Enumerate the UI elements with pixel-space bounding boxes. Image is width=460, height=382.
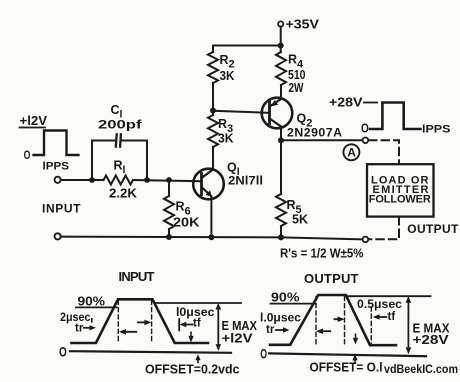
svg-text:OFFSET=0.2vdc: OFFSET=0.2vdc (145, 363, 240, 377)
svg-text:OFFSET= O.l: OFFSET= O.l (310, 361, 383, 375)
svg-text:tf: tf (193, 317, 201, 329)
arrow EMAX vertical output (406, 296, 412, 354)
svg-text:INPUT: INPUT (42, 201, 81, 215)
wire 90% level line input (76, 306, 117, 308)
input trapezoid waveform (72, 299, 209, 343)
wire dashed from load box bottom (369, 217, 399, 239)
svg-text:3K: 3K (218, 132, 234, 146)
svg-text:lPPS: lPPS (422, 123, 451, 135)
capacitor C1 (92, 134, 147, 180)
input terminal (55, 177, 61, 183)
input pulse waveform +12V (20, 128, 79, 156)
node Q2 collector junction (278, 137, 284, 143)
ground-return terminal bottom left (55, 233, 61, 239)
svg-text:90%: 90% (271, 289, 300, 304)
svg-text:2W: 2W (289, 81, 304, 95)
dashed riser right output (344, 297, 346, 345)
resistor R2 (208, 46, 218, 111)
transistor Q1 (193, 169, 224, 238)
svg-text:l.0μsec: l.0μsec (260, 310, 301, 324)
svg-text:O: O (24, 148, 31, 162)
svg-text:+35V: +35V (286, 16, 320, 31)
wire dashed to load box top (369, 140, 399, 164)
tick after 2usec (91, 318, 93, 323)
svg-text:+l2V: +l2V (20, 114, 48, 128)
svg-text:3K: 3K (220, 69, 235, 83)
svg-text:2Nl7ll: 2Nl7ll (228, 175, 263, 187)
svg-text:O: O (260, 346, 267, 361)
arrow offset up input (195, 354, 200, 362)
dashed riser fall-bottom output (370, 307, 372, 345)
svg-text:20K: 20K (173, 216, 200, 230)
node rail R6 (166, 234, 172, 240)
wire top reference line to EMAX output (347, 295, 431, 297)
resistor R3 (208, 111, 218, 169)
transistor Q2 (262, 98, 293, 141)
svg-text:510: 510 (288, 68, 306, 82)
svg-text:vdBeekIC.com: vdBeekIC.com (384, 364, 458, 376)
arrow top-width right input (138, 320, 151, 326)
arrow EMAX vertical input (216, 303, 222, 351)
arrow tf output (373, 314, 386, 319)
svg-text:90%: 90% (78, 294, 106, 309)
arrow top-width left input (119, 329, 136, 335)
dashed riser right input (151, 301, 153, 344)
arrow tf input with tick (179, 319, 192, 331)
node R2/R3 junction (210, 108, 216, 114)
dashed riser left input (117, 301, 119, 344)
wire zero line input (70, 351, 231, 353)
arrow offset up output (352, 354, 357, 362)
wire +35V down to top rail (280, 27, 282, 46)
svg-text:INPUT: INPUT (119, 269, 155, 284)
arrow tr output (276, 327, 290, 332)
arrow top-width right output (335, 316, 345, 322)
svg-text:lPPS: lPPS (43, 160, 70, 172)
wire bottom rail (61, 237, 362, 240)
+35V terminal (278, 21, 283, 26)
dashed riser left output (315, 297, 317, 345)
wire top reference line to EMAX input (155, 302, 242, 304)
svg-text:OUTPUT: OUTPUT (304, 271, 359, 286)
svg-text:+l2V: +l2V (222, 330, 253, 345)
svg-text:5K: 5K (292, 213, 308, 227)
output bottom terminal (363, 237, 369, 243)
wire collector to output terminal (281, 139, 362, 141)
node A circle (343, 144, 359, 160)
svg-text:tf: tf (388, 311, 396, 323)
node rail R5 (278, 234, 284, 240)
node R6 top junction (166, 177, 172, 183)
resistor R1 (104, 176, 134, 185)
output top terminal (363, 138, 369, 144)
svg-text:2N2907A: 2N2907A (287, 125, 342, 139)
wire 90% level line output (271, 303, 316, 305)
wire zero line output (269, 353, 426, 356)
node C1 left junction (89, 177, 95, 183)
wire R1 to Q1 base (133, 180, 202, 181)
arrow offset down input (188, 332, 193, 342)
svg-text:A: A (347, 146, 356, 160)
svg-text:O: O (361, 121, 369, 136)
svg-text:+28V: +28V (413, 332, 449, 347)
arrow top-width left output (316, 328, 330, 334)
svg-text:FOLLOWER: FOLLOWER (369, 194, 431, 206)
svg-text:tr: tr (266, 324, 275, 336)
svg-text:R's = 1/2 W±5%: R's = 1/2 W±5% (280, 247, 364, 261)
arrow offset down output (353, 334, 358, 344)
svg-text:200pf: 200pf (98, 118, 143, 132)
node C1 right junction (144, 177, 150, 183)
arrow tr input (84, 325, 96, 330)
svg-text:O: O (59, 344, 67, 359)
wire top rail (213, 45, 281, 47)
svg-text:tr: tr (75, 322, 84, 334)
wire input to R1 (61, 179, 104, 181)
load box (367, 164, 434, 216)
svg-text:OUTPUT: OUTPUT (407, 222, 459, 236)
wire to Q2 base (213, 111, 269, 113)
node top-rail junction (278, 43, 284, 49)
resistor R4 (276, 46, 286, 99)
node rail Q1 emitter (208, 234, 214, 240)
resistor R5 (276, 141, 286, 238)
resistor R6 (164, 180, 174, 237)
svg-text:+28V: +28V (329, 96, 363, 110)
svg-text:0.5μsec: 0.5μsec (357, 297, 402, 311)
output pulse waveform +28V (364, 103, 420, 130)
output trapezoid waveform (270, 295, 396, 345)
svg-text:2.2K: 2.2K (109, 186, 137, 200)
